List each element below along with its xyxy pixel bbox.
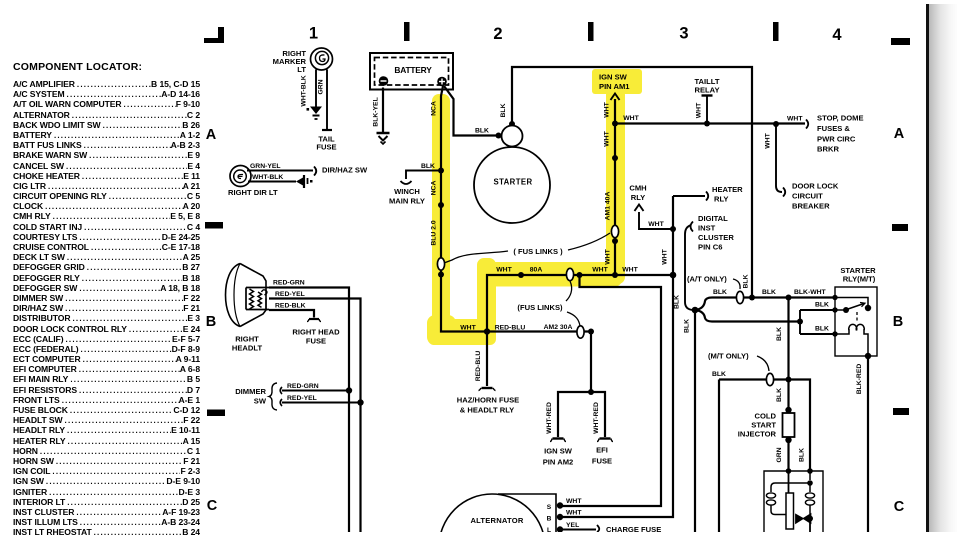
splice NCA/BLU2.0 xyxy=(438,202,444,208)
connector wht-blk harness xyxy=(296,175,313,188)
alternator pin L xyxy=(547,526,563,534)
svg-text:3: 3 xyxy=(679,25,688,43)
junction AM2 xyxy=(588,329,594,335)
wire BLK cold start injector xyxy=(787,298,789,411)
svg-text:IGN SW: IGN SW xyxy=(544,447,573,456)
junction feed/at xyxy=(749,295,755,301)
relay pin out xyxy=(865,353,871,359)
svg-text:(M/T ONLY): (M/T ONLY) xyxy=(708,352,749,361)
svg-text:STARTER: STARTER xyxy=(493,178,532,187)
junction AM1/taillt row xyxy=(612,121,618,127)
battery positive terminal xyxy=(437,77,447,87)
fusible link oval AM1 xyxy=(611,225,618,237)
junction taillt xyxy=(704,121,710,127)
svg-text:RED-BLK: RED-BLK xyxy=(275,303,306,310)
svg-text:GRN: GRN xyxy=(318,79,325,94)
junction red-yel xyxy=(357,399,363,405)
wire RED-GRN dimmer xyxy=(280,387,349,394)
label IGN SW PIN AM1 xyxy=(599,73,630,92)
splice below fus link xyxy=(438,272,444,278)
svg-text:FUSES &: FUSES & xyxy=(817,124,850,133)
connector IGN SW PIN AM2 xyxy=(550,439,566,442)
svg-text:CMH: CMH xyxy=(629,184,646,193)
svg-text:WHT-RED: WHT-RED xyxy=(593,402,600,434)
fusible link oval on NCA wire xyxy=(437,258,444,270)
svg-text:BATTERY: BATTERY xyxy=(394,65,432,75)
registration corner mark top-left xyxy=(204,27,224,43)
splice AM1 xyxy=(612,155,618,161)
wire M/T riser down xyxy=(718,380,720,533)
junction CMH xyxy=(670,226,676,232)
connector dir/haz xyxy=(314,167,316,176)
battery negative terminal xyxy=(379,76,389,86)
highlight: WHT jumper at bottom of fus link xyxy=(428,319,496,345)
column tick 3/4 xyxy=(773,22,779,41)
svg-text:BRKR: BRKR xyxy=(817,145,839,154)
right marker lamp xyxy=(311,48,333,70)
svg-text:YEL: YEL xyxy=(566,522,579,529)
svg-text:BLK: BLK xyxy=(743,274,750,288)
connector EFI FUSE xyxy=(597,439,613,442)
connector haz/horn xyxy=(479,388,496,391)
svg-text:SW: SW xyxy=(254,397,267,406)
svg-text:RED-YEL: RED-YEL xyxy=(275,291,305,298)
connector stop dome fuses xyxy=(806,120,808,129)
junction stop/dome branch xyxy=(773,121,779,127)
svg-text:FUSE: FUSE xyxy=(592,457,612,466)
taillt relay stub xyxy=(702,96,713,124)
time switch pin GRN xyxy=(786,468,792,474)
column tick 1/2 xyxy=(404,22,410,41)
wire RED-GRN headlight xyxy=(269,288,349,533)
junction at solenoid xyxy=(496,133,502,139)
svg-text:RIGHT HEAD: RIGHT HEAD xyxy=(292,328,340,337)
svg-text:PIN AM2: PIN AM2 xyxy=(543,458,574,467)
svg-text:CHARGE FUSE: CHARGE FUSE xyxy=(606,525,661,532)
svg-text:BLK: BLK xyxy=(500,103,507,117)
svg-text:WHT: WHT xyxy=(696,102,703,118)
svg-text:BLK: BLK xyxy=(776,327,783,341)
leader fus links to NCA oval xyxy=(444,251,508,263)
wire WHT-BLK dir lamp xyxy=(248,181,296,183)
svg-text:RLY: RLY xyxy=(714,195,729,204)
svg-text:INST: INST xyxy=(698,224,716,233)
svg-text:BLK: BLK xyxy=(713,289,727,296)
wire GRN injector to time switch xyxy=(787,440,789,471)
junction winch branch xyxy=(438,168,444,174)
svg-text:WHT: WHT xyxy=(648,221,664,228)
svg-text:FUSE: FUSE xyxy=(316,143,336,152)
row tick B/C right xyxy=(893,408,909,415)
svg-text:IGN SW: IGN SW xyxy=(599,73,628,82)
wire WHT to alternator S xyxy=(562,275,661,506)
svg-text:HEADLT: HEADLT xyxy=(232,344,263,353)
fusible link oval 80A xyxy=(566,268,573,280)
svg-text:WHT-BLK: WHT-BLK xyxy=(301,75,308,106)
svg-text:HEATER: HEATER xyxy=(712,185,743,194)
highlight: IGN SW PIN AM1 label xyxy=(592,69,642,94)
wire WHT to door lock breaker xyxy=(776,124,782,192)
label EFI FUSE xyxy=(592,446,612,466)
relay movable contact xyxy=(835,303,865,314)
label RIGHT HEADLT xyxy=(232,335,263,353)
wire BLK-YEL battery negative to ground xyxy=(382,88,384,133)
svg-text:LT: LT xyxy=(297,65,306,74)
wire BLK lower row to relay xyxy=(695,310,800,322)
highlight: RED-BLU riser xyxy=(477,258,496,343)
svg-text:RED-YEL: RED-YEL xyxy=(287,395,317,402)
svg-text:BLK-YEL: BLK-YEL xyxy=(373,97,380,126)
connector heater rly xyxy=(706,192,708,201)
svg-text:B: B xyxy=(206,314,216,330)
svg-text:(FUS LINKS): (FUS LINKS) xyxy=(517,303,563,312)
svg-text:PIN C6: PIN C6 xyxy=(698,243,722,252)
label DOOR LOCK CIRCUIT BREAKER xyxy=(792,182,839,211)
time switch box xyxy=(764,471,823,532)
svg-text:S: S xyxy=(547,504,552,511)
wire RED-BLU to haz/horn fuse xyxy=(486,332,488,387)
svg-text:DOOR LOCK: DOOR LOCK xyxy=(792,182,839,191)
label COLD START INJECTOR xyxy=(738,412,777,439)
relay plunger dashed link xyxy=(856,312,858,323)
svg-text:EFI: EFI xyxy=(596,446,608,455)
time switch pin BLK xyxy=(807,468,813,474)
battery B1 xyxy=(370,53,453,90)
svg-text:( FUS LINKS ): ( FUS LINKS ) xyxy=(513,247,563,256)
cold start injector xyxy=(783,407,795,443)
ground marker lamp xyxy=(307,107,323,120)
svg-text:B: B xyxy=(893,314,903,330)
svg-text:BLK: BLK xyxy=(762,289,776,296)
relay pin blk-wht xyxy=(832,295,837,300)
alternator pin B xyxy=(547,514,564,523)
svg-text:WHT: WHT xyxy=(662,248,669,264)
svg-text:BLK: BLK xyxy=(684,319,691,333)
label CMH RLY xyxy=(629,184,646,203)
svg-text:WHT: WHT xyxy=(566,510,582,517)
svg-text:GRN: GRN xyxy=(776,447,783,462)
headlight filaments xyxy=(246,288,269,310)
svg-text:BLK: BLK xyxy=(776,388,783,402)
svg-text:PWR CIRC: PWR CIRC xyxy=(817,135,856,144)
relay pin contact xyxy=(832,307,837,312)
connector tail fuse xyxy=(322,129,332,131)
wire RED-BLU / AM2 30A row xyxy=(487,330,591,332)
svg-text:WHT: WHT xyxy=(623,115,639,122)
svg-text:ALTERNATOR: ALTERNATOR xyxy=(470,516,523,525)
svg-text:PIN AM1: PIN AM1 xyxy=(599,82,630,91)
svg-text:RELAY: RELAY xyxy=(694,86,719,95)
leader m/t only xyxy=(757,356,769,371)
svg-text:CLUSTER: CLUSTER xyxy=(698,233,734,242)
wire BLK M/T row xyxy=(719,380,810,472)
wire BLK-RED xyxy=(867,356,869,532)
wire AM1 40A to ign sw xyxy=(614,99,616,275)
wire GRN-YEL to dir/haz sw xyxy=(247,170,313,172)
svg-text:FUSE: FUSE xyxy=(306,337,326,346)
leader to 80A oval xyxy=(566,281,572,301)
svg-text:BLK-RED: BLK-RED xyxy=(856,364,863,395)
label HAZ/HORN FUSE & HEADLT RLY xyxy=(457,396,519,415)
svg-text:DIGITAL: DIGITAL xyxy=(698,214,728,223)
svg-text:RED-GRN: RED-GRN xyxy=(287,383,319,390)
wire RED-YEL headlight xyxy=(269,299,361,533)
svg-text:DIMMER: DIMMER xyxy=(235,387,266,396)
wire CMH rly stub xyxy=(639,212,673,229)
svg-text:RIGHT: RIGHT xyxy=(235,335,259,344)
fusible link oval AM2 xyxy=(577,326,584,338)
svg-text:(A/T ONLY): (A/T ONLY) xyxy=(687,275,727,284)
svg-text:WHT: WHT xyxy=(460,325,476,332)
alternator pin S xyxy=(547,502,563,511)
label STARTER RLY(M/T) xyxy=(840,266,876,284)
svg-text:& HEADLT RLY: & HEADLT RLY xyxy=(460,406,514,415)
svg-text:2: 2 xyxy=(493,25,502,43)
junction 80A right xyxy=(577,272,583,278)
splice below AM1 link xyxy=(612,238,618,244)
svg-text:INJECTOR: INJECTOR xyxy=(738,430,777,439)
row tick B/C left xyxy=(207,410,225,417)
relay internal: feed to fixed contact xyxy=(835,298,868,307)
svg-text:BLK: BLK xyxy=(674,295,681,309)
label WINCH MAIN RLY xyxy=(389,187,425,206)
junction 80A left xyxy=(518,272,524,278)
ground at battery xyxy=(377,133,390,144)
svg-text:WHT: WHT xyxy=(496,267,512,274)
svg-text:WHT: WHT xyxy=(622,267,638,274)
wire WHT-RED ign am2 / efi fuse xyxy=(558,332,605,438)
label IGN SW PIN AM2 xyxy=(543,447,574,467)
right dir lamp xyxy=(230,166,251,187)
svg-text:BLK: BLK xyxy=(815,302,829,309)
highlight: battery NCA wire xyxy=(427,94,456,345)
wire relay contact feed xyxy=(800,310,835,334)
component locator list xyxy=(13,61,200,537)
junction at NCA corner xyxy=(484,328,490,334)
svg-text:WINCH: WINCH xyxy=(394,187,420,196)
svg-text:MAIN RLY: MAIN RLY xyxy=(389,197,425,206)
wire RED-YEL dimmer xyxy=(280,399,360,406)
highlight: WHT 80A feed xyxy=(477,262,622,287)
wire WHT-BLK marker to ground xyxy=(315,70,317,109)
svg-text:BREAKER: BREAKER xyxy=(792,202,830,211)
starter solenoid xyxy=(502,126,523,147)
fusible link oval A/T xyxy=(736,291,743,303)
relay coil xyxy=(835,324,868,356)
svg-text:DIR/HAZ SW: DIR/HAZ SW xyxy=(322,166,368,175)
svg-text:WHT: WHT xyxy=(566,498,582,505)
svg-text:BLK-WHT: BLK-WHT xyxy=(794,289,827,296)
svg-text:4: 4 xyxy=(832,26,842,44)
svg-text:BLK: BLK xyxy=(421,163,435,170)
svg-text:GRN-YEL: GRN-YEL xyxy=(250,163,281,170)
relay pin coil xyxy=(832,331,837,336)
connector arrow CMH xyxy=(635,205,644,212)
svg-text:STOP, DOME: STOP, DOME xyxy=(817,114,864,123)
label DIGITAL INST CLUSTER PIN C6 xyxy=(698,214,734,252)
wire GRN marker to tail fuse xyxy=(326,70,328,130)
relay fixed contact xyxy=(865,305,871,311)
svg-text:RIGHT DIR LT: RIGHT DIR LT xyxy=(228,188,278,197)
label TAILLT RELAY xyxy=(694,77,719,95)
svg-text:BLK: BLK xyxy=(799,448,806,462)
junction red-grn xyxy=(346,387,352,393)
starter motor xyxy=(474,147,550,223)
wire YEL charge fuse xyxy=(560,529,596,531)
junction WHT feed end xyxy=(670,272,677,279)
highlight: AM1 40A wire xyxy=(606,88,625,284)
dimmer brace xyxy=(269,383,277,410)
label DIMMER SW xyxy=(235,387,267,406)
svg-text:WHT-BLK: WHT-BLK xyxy=(252,174,283,181)
wire BLK A/T row xyxy=(695,298,835,311)
right headlight sealed beam xyxy=(226,264,267,327)
svg-text:WHT: WHT xyxy=(787,116,803,123)
svg-text:BLK: BLK xyxy=(475,128,489,135)
wire RED-BLK headlight xyxy=(269,310,314,318)
connector digital cluster xyxy=(691,222,694,232)
svg-text:RED-BLU: RED-BLU xyxy=(475,351,482,382)
wire BLK battery positive to starter solenoid xyxy=(444,86,497,136)
svg-text:RED-GRN: RED-GRN xyxy=(273,280,305,287)
connector right head fuse xyxy=(307,319,321,322)
svg-text:C: C xyxy=(894,499,905,515)
wire WHT ign row xyxy=(615,122,805,124)
row tick A/B right xyxy=(892,224,908,231)
svg-text:WHT-RED: WHT-RED xyxy=(546,402,553,434)
row tick A/B left xyxy=(205,222,223,229)
starter relay box xyxy=(835,287,877,356)
connector arrow IGN SW PIN AM1 xyxy=(611,94,620,101)
svg-text:A: A xyxy=(206,127,217,143)
alternator xyxy=(439,494,556,537)
label RIGHT HEAD FUSE xyxy=(292,328,340,346)
svg-text:WHT: WHT xyxy=(765,132,772,148)
column tick 2/3 xyxy=(588,22,594,41)
svg-text:A: A xyxy=(894,126,905,142)
svg-text:L: L xyxy=(547,527,551,532)
svg-text:RLY(M/T): RLY(M/T) xyxy=(843,275,876,284)
svg-text:WHT: WHT xyxy=(592,267,608,274)
wire digital inst cluster drop xyxy=(685,225,693,310)
wire WHT to alternator B xyxy=(673,195,705,197)
svg-text:HAZ/HORN FUSE: HAZ/HORN FUSE xyxy=(457,396,519,405)
svg-text:BLK: BLK xyxy=(712,371,726,378)
svg-text:WHT: WHT xyxy=(604,101,611,117)
svg-text:START: START xyxy=(751,421,776,430)
time switch internals xyxy=(766,471,814,532)
svg-text:B: B xyxy=(547,516,552,523)
svg-text:WHT: WHT xyxy=(604,130,611,146)
label TAIL FUSE xyxy=(316,135,336,152)
svg-text:BLU 2.0: BLU 2.0 xyxy=(431,220,438,246)
junction cold start branch xyxy=(786,295,792,301)
wire WHT 80A feed xyxy=(487,275,673,332)
svg-text:NCA: NCA xyxy=(431,101,438,116)
label HEATER RLY xyxy=(712,185,743,204)
svg-text:CIRCUIT: CIRCUIT xyxy=(792,192,823,201)
label RIGHT MARKER LT xyxy=(273,49,307,74)
svg-text:80A: 80A xyxy=(530,267,543,274)
fusible link oval M/T xyxy=(766,373,773,385)
junction bundle xyxy=(692,307,699,314)
junction AM1 at feed row xyxy=(612,272,618,278)
svg-text:AM1 40A: AM1 40A xyxy=(605,192,612,221)
svg-text:AM2 30A: AM2 30A xyxy=(544,324,573,331)
junction solenoid top xyxy=(509,121,515,127)
row tick top right xyxy=(891,38,910,45)
svg-text:RLY: RLY xyxy=(631,193,646,202)
wire bundle down xyxy=(694,310,696,532)
wire BLK to winch main rly xyxy=(406,171,441,180)
junction relay bracket xyxy=(797,319,803,325)
leader a/t only xyxy=(733,279,740,289)
junction am2 split xyxy=(588,389,594,395)
svg-text:COLD: COLD xyxy=(754,412,776,421)
wire WHT vertical to alternator B xyxy=(562,196,673,517)
svg-text:WHT: WHT xyxy=(605,248,612,264)
svg-text:C: C xyxy=(207,498,218,514)
connector charge fuse xyxy=(597,525,599,532)
label STOP DOME FUSES & PWR CIRC BRKR xyxy=(817,114,864,154)
svg-text:NCA: NCA xyxy=(431,181,438,196)
connector winch main rly xyxy=(401,181,412,184)
connector door lock xyxy=(783,188,785,197)
wire BLK solenoid to main feed xyxy=(512,67,752,297)
leader fus links to AM1 oval xyxy=(568,233,610,250)
svg-text:1: 1 xyxy=(309,25,318,43)
wire NCA battery positive down xyxy=(441,86,487,332)
svg-text:BLK: BLK xyxy=(815,326,829,333)
junction injector top xyxy=(786,377,792,383)
leader to AM2 oval xyxy=(567,312,580,326)
